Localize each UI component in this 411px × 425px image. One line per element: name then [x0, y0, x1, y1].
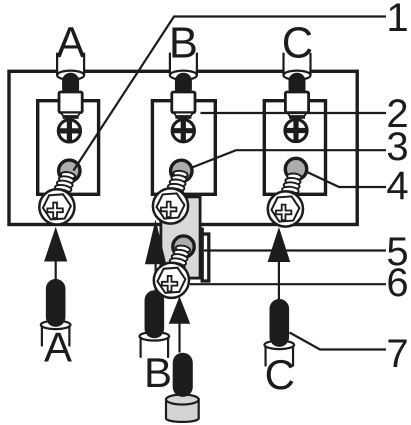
- callout line 5: [204, 249, 386, 251]
- jumper screw hole: [173, 236, 194, 257]
- svg-text:C: C: [265, 351, 295, 398]
- terminal B screw: [153, 167, 190, 223]
- terminal A clamp screw head: [58, 120, 80, 142]
- wire C with sleeve cup: [264, 299, 294, 366]
- svg-text:B: B: [169, 20, 198, 68]
- terminal C clamp screw head: [285, 119, 307, 141]
- wire A with sleeve cup: [41, 279, 71, 346]
- callout line 1: [74, 17, 387, 171]
- callout line 4: [306, 172, 386, 188]
- svg-text:C: C: [282, 20, 313, 68]
- svg-text:4: 4: [386, 164, 408, 208]
- terminal A screw hole: [59, 160, 80, 181]
- terminal A wire sleeve + crimp: [57, 53, 84, 119]
- terminal B inner box: [152, 101, 215, 195]
- wire B with sleeve cup: [139, 290, 169, 357]
- svg-text:6: 6: [386, 261, 408, 305]
- terminal C inner box: [264, 101, 325, 195]
- terminal A screw: [39, 168, 77, 224]
- arrow A: [44, 227, 67, 262]
- terminal C wire sleeve + crimp: [284, 53, 311, 119]
- arrow C: [268, 227, 291, 262]
- svg-text:1: 1: [386, 0, 408, 40]
- callout line 3: [192, 150, 386, 167]
- svg-text:B: B: [144, 349, 172, 396]
- callout line 6: [190, 283, 386, 285]
- terminal C screw: [268, 170, 304, 226]
- arrow B: [145, 220, 166, 265]
- svg-text:A: A: [44, 324, 72, 371]
- svg-text:A: A: [56, 20, 85, 68]
- jumper screw: [154, 242, 193, 298]
- svg-text:3: 3: [386, 125, 408, 169]
- callout line 7: [290, 333, 387, 350]
- outer terminal block box: [9, 71, 357, 224]
- terminal B clamp screw head: [172, 120, 194, 142]
- gray mounting block: [161, 197, 200, 278]
- terminal A inner box: [38, 101, 99, 195]
- clamp bracket: [202, 234, 209, 281]
- arrow jumper: [169, 296, 190, 324]
- svg-text:7: 7: [386, 332, 408, 376]
- callout line 2: [201, 112, 387, 114]
- terminal C screw hole: [285, 158, 306, 179]
- terminal B wire sleeve + crimp: [170, 53, 197, 119]
- terminal B screw hole: [171, 160, 192, 181]
- jumper wire: [166, 353, 199, 422]
